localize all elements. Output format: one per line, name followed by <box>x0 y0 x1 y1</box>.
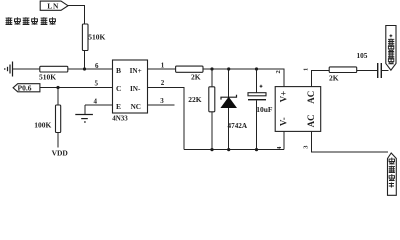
svg-text:LN: LN <box>47 2 59 11</box>
svg-text:1: 1 <box>161 62 165 70</box>
svg-text:10uF: 10uF <box>256 105 273 114</box>
svg-text:IN+: IN+ <box>130 67 142 75</box>
svg-text:NC: NC <box>131 103 141 111</box>
svg-text:4742A: 4742A <box>228 122 248 130</box>
svg-text:AC: AC <box>306 114 316 127</box>
svg-text:P0.6: P0.6 <box>18 84 32 93</box>
svg-text:2K: 2K <box>191 73 201 82</box>
svg-text:22K: 22K <box>188 95 202 104</box>
svg-text:4: 4 <box>276 146 283 150</box>
svg-text:2K: 2K <box>329 74 339 83</box>
svg-text:IN-: IN- <box>130 85 141 93</box>
svg-text:105: 105 <box>357 51 368 60</box>
svg-text:2: 2 <box>275 70 282 73</box>
svg-text:5: 5 <box>95 80 99 88</box>
svg-text:C: C <box>116 84 121 93</box>
svg-text:1: 1 <box>302 68 309 71</box>
svg-text:V-: V- <box>278 117 288 126</box>
svg-text:E: E <box>116 102 121 111</box>
svg-text:AC: AC <box>306 91 316 104</box>
svg-text:B: B <box>116 66 121 75</box>
svg-text:510K: 510K <box>39 73 56 82</box>
svg-text:6: 6 <box>95 62 99 70</box>
svg-text:100K: 100K <box>34 121 51 130</box>
svg-text:4: 4 <box>94 98 98 106</box>
svg-text:510K: 510K <box>88 33 105 42</box>
svg-text:V+: V+ <box>278 91 288 103</box>
svg-text:3: 3 <box>302 145 309 149</box>
svg-text:2: 2 <box>161 79 165 87</box>
svg-text:3: 3 <box>160 97 164 105</box>
svg-text:4N33: 4N33 <box>112 115 128 123</box>
svg-text:VDD: VDD <box>52 148 69 157</box>
